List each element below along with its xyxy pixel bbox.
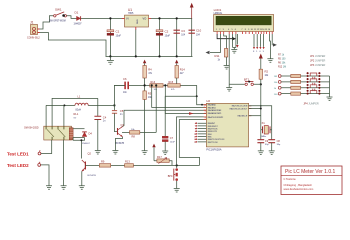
svg-text:C6: C6 bbox=[123, 77, 127, 81]
net arrow on RA5 wire bbox=[189, 112, 194, 115]
wire relay pin down to ground bbox=[63, 140, 65, 186]
wire relay coil to D4 top bbox=[73, 128, 84, 130]
capacitor C9 bbox=[257, 140, 269, 146]
junction node C1 bottom bbox=[109, 55, 111, 57]
wire J1 pin1 up to rail bbox=[38, 16, 50, 29]
svg-text:D4: D4 bbox=[89, 132, 93, 136]
wire Q2 base to R9 bbox=[85, 164, 99, 166]
wire C1 column bbox=[109, 18, 111, 56]
wire C6 tap down to tank node bbox=[114, 85, 125, 105]
wire U2 MCLR to R2 column bbox=[249, 115, 261, 117]
power +5V arrow above rail bbox=[190, 3, 194, 19]
svg-text:BT1: BT1 bbox=[244, 77, 250, 81]
svg-text:C7: C7 bbox=[170, 136, 174, 140]
wire U2 OSC1 to crystal right rail bbox=[249, 106, 272, 130]
diode D1 bbox=[74, 11, 83, 26]
svg-text:OMI-SH-205D: OMI-SH-205D bbox=[24, 128, 39, 130]
junction node RA2 wire bbox=[201, 104, 203, 106]
resistor R2 bbox=[259, 69, 269, 79]
wire LED2 to ground bbox=[41, 165, 49, 186]
resistor R15 comparator bbox=[168, 81, 180, 91]
U2 right pin stubs red bbox=[249, 106, 252, 116]
junction node tank bbox=[113, 104, 115, 106]
wire C8 to ground bbox=[271, 143, 273, 151]
ground symbol jumper bus bbox=[327, 97, 333, 101]
junction node R4 R3 bbox=[144, 84, 146, 86]
svg-text:1N4007: 1N4007 bbox=[82, 143, 90, 145]
svg-text:C4: C4 bbox=[103, 115, 107, 119]
svg-text:RA1/AN1: RA1/AN1 bbox=[208, 106, 216, 109]
ground symbol LCD RS/button bbox=[226, 84, 232, 91]
jumper row 1 terminal bbox=[274, 75, 281, 79]
wire row4 bbox=[281, 93, 329, 95]
power +5V arrow above R4 bbox=[143, 60, 146, 66]
wire comparator node horizontal bbox=[114, 84, 196, 86]
junction node C3 top bbox=[176, 17, 178, 19]
jumper block pins column B bbox=[318, 72, 320, 95]
wire LCD RS down to button node bbox=[228, 34, 230, 84]
wire LCD backlight pin to ground bbox=[269, 34, 272, 59]
svg-text:4MHz: 4MHz bbox=[261, 136, 267, 138]
power +5V arrow for R17 bbox=[152, 144, 155, 161]
svg-text:R5 100: R5 100 bbox=[278, 58, 286, 60]
svg-text:82uH: 82uH bbox=[76, 109, 82, 111]
junction node C7 tap bbox=[196, 95, 198, 97]
title block frame bbox=[281, 166, 342, 195]
wire bypass corner down to C4 bbox=[97, 98, 99, 116]
svg-text:BC547B: BC547B bbox=[88, 175, 97, 177]
svg-text:R9: R9 bbox=[101, 160, 105, 164]
junction node button R2 bbox=[260, 83, 262, 85]
ground symbol C8 bbox=[269, 151, 275, 155]
wire relay coil to D4 bottom bbox=[73, 137, 84, 139]
svg-text:VO: VO bbox=[143, 17, 147, 21]
wire C3 column bbox=[176, 18, 178, 56]
svg-text:VI: VI bbox=[126, 17, 129, 21]
push button calibrate bbox=[168, 165, 178, 188]
wire LCD VDD down left bbox=[210, 34, 220, 53]
svg-text:GND: GND bbox=[137, 19, 139, 24]
wire crystal left down to C9 bbox=[260, 130, 262, 140]
svg-text:RB5: RB5 bbox=[208, 136, 212, 138]
svg-text:Test LED2: Test LED2 bbox=[7, 163, 29, 168]
svg-text:R12 1M: R12 1M bbox=[278, 67, 286, 69]
svg-text:Q2: Q2 bbox=[88, 152, 92, 156]
net arrows data wires bbox=[253, 47, 265, 49]
pin number labels under data wires bbox=[253, 51, 265, 53]
wire relay pin1 up bbox=[45, 105, 47, 126]
wire tank node down to C5 bbox=[113, 105, 115, 110]
ground symbol under C4 bbox=[95, 151, 101, 155]
wire bottom run bbox=[111, 164, 200, 166]
svg-text:RA5/MCLR: RA5/MCLR bbox=[238, 115, 248, 118]
svg-text:RB2/TX/CK: RB2/TX/CK bbox=[208, 128, 219, 130]
ground symbol under C7 bbox=[162, 151, 168, 155]
wire LCD VSS to net arrow bbox=[217, 34, 232, 39]
capacitor C10 bbox=[189, 29, 202, 37]
wire LCD data D4-D7 bbox=[254, 34, 264, 47]
ground symbol backlight bbox=[267, 59, 273, 63]
resistor R13 bbox=[125, 160, 134, 167]
wire top rail from SW1 to U1 input bbox=[50, 16, 124, 19]
svg-text:R13: R13 bbox=[151, 81, 156, 84]
wire Q2 collector to relay coil node bbox=[73, 138, 84, 159]
preset R17 bbox=[154, 155, 172, 166]
resistor R14 bbox=[175, 66, 185, 79]
wire Q1 collector to PIC RA4 bbox=[123, 110, 207, 126]
wire C2 column bbox=[159, 18, 161, 56]
jumper row 2 terminal bbox=[274, 81, 281, 85]
transistor Q2 bbox=[82, 152, 96, 178]
wire U2 OSC2 to crystal left rail bbox=[249, 108, 261, 110]
resistor R8 bbox=[122, 129, 156, 139]
wire J1 pin2 return to ground rail bbox=[38, 33, 107, 57]
svg-text:RA0/AN0: RA0/AN0 bbox=[208, 104, 216, 107]
switch SW1 bbox=[49, 8, 67, 23]
wire R2 column down to crystal bbox=[260, 79, 262, 130]
wire LCD E pin stub down bbox=[236, 34, 238, 45]
power +5V arrow above R2 bbox=[259, 54, 263, 70]
svg-text:JP2 JUMPER: JP2 JUMPER bbox=[310, 59, 325, 62]
wire C7 node horizontal bbox=[165, 95, 197, 97]
svg-text:Test LED1: Test LED1 bbox=[7, 152, 29, 157]
svg-text:RB7/T1OSI: RB7/T1OSI bbox=[208, 142, 218, 144]
wire C10 column bbox=[191, 18, 193, 56]
junction node bottom button bbox=[176, 164, 178, 166]
svg-text:RB3/CCP1: RB3/CCP1 bbox=[208, 131, 217, 133]
U2 right pin labels bbox=[230, 105, 248, 118]
net arrow E pin bbox=[236, 45, 239, 48]
svg-text:D1: D1 bbox=[75, 11, 79, 15]
terminal Test LED1 bbox=[7, 151, 41, 157]
ground symbol C9 bbox=[258, 151, 264, 155]
svg-text:Pic LC Meter Ver 1.0.1: Pic LC Meter Ver 1.0.1 bbox=[285, 169, 336, 175]
junction node relay pin3 bbox=[63, 104, 65, 106]
wire LCD VEE to R11 bbox=[224, 34, 227, 49]
wire R14 column down to net bbox=[176, 78, 178, 84]
svg-text:1M: 1M bbox=[274, 76, 277, 78]
wire relay pin3 up bbox=[63, 105, 65, 126]
ground symbol LCD RW/E bbox=[231, 48, 237, 54]
resistor R13 comparator bbox=[150, 81, 163, 91]
resistor jumper row1 bbox=[291, 74, 301, 77]
wire ground rail bbox=[106, 55, 192, 57]
resistor R11 bbox=[215, 49, 228, 62]
svg-text:R13: R13 bbox=[125, 160, 130, 164]
wire button row bbox=[229, 83, 261, 85]
svg-text:1N4007: 1N4007 bbox=[74, 23, 83, 25]
svg-text:R15: R15 bbox=[169, 81, 174, 84]
resistor jumper row4 bbox=[291, 92, 301, 95]
transistor Q1 bbox=[116, 123, 125, 145]
junction node C2 bottom bbox=[158, 55, 160, 57]
diode D4 flyback bbox=[82, 132, 92, 145]
junction node osc tap bbox=[260, 105, 262, 107]
svg-text:C1: C1 bbox=[116, 30, 120, 34]
ground symbol under Q1 bbox=[112, 151, 118, 155]
wire R11 to ground bbox=[226, 57, 228, 66]
svg-text:RA4/T0CKI/CMP2: RA4/T0CKI/CMP2 bbox=[208, 116, 223, 119]
wire R8 vertical to comparator node bbox=[155, 85, 157, 132]
svg-text:J1: J1 bbox=[30, 21, 34, 25]
inductor L1 bbox=[75, 96, 88, 112]
wire row1 bbox=[281, 75, 329, 77]
junction node RA3 tap bbox=[151, 84, 153, 86]
wire relay pin2 bypass to C4 bbox=[52, 98, 98, 126]
svg-text:JP1 JUMPER: JP1 JUMPER bbox=[310, 55, 325, 58]
svg-text:R8: R8 bbox=[132, 135, 136, 139]
U2 left pin numbers bbox=[194, 106, 206, 144]
svg-text:R14: R14 bbox=[180, 68, 185, 72]
wire R3 right to PIC RA5 bbox=[165, 85, 206, 113]
svg-text:RA7/OSC1/CLKIN: RA7/OSC1/CLKIN bbox=[232, 105, 248, 108]
capacitor C6 bbox=[123, 77, 129, 94]
junction node OSC2 left rail bbox=[260, 108, 262, 110]
wire jumper right bus bbox=[329, 76, 331, 97]
junction node R8 tap bbox=[155, 84, 157, 86]
svg-text:3: 3 bbox=[205, 117, 206, 119]
resistor R5 divider bbox=[143, 85, 152, 150]
svg-text:R4: R4 bbox=[148, 68, 152, 72]
svg-text:C5: C5 bbox=[120, 109, 124, 113]
junction node U1 gnd bbox=[135, 55, 137, 57]
LCD pin stubs bbox=[217, 32, 272, 35]
svg-text:BPC: BPC bbox=[168, 175, 173, 178]
svg-text:R6 10k: R6 10k bbox=[278, 63, 286, 65]
wire R15 net down to PIC RA2 bbox=[197, 85, 207, 104]
ground symbol under R11 bbox=[224, 66, 230, 70]
svg-text:7805: 7805 bbox=[128, 12, 134, 15]
wire LED1 to relay contact bbox=[41, 140, 52, 154]
jumper row 3 terminal bbox=[274, 86, 281, 90]
junction node RA5 tap bbox=[164, 84, 166, 86]
svg-text:C3: C3 bbox=[181, 29, 185, 33]
svg-text:RB6/T1OSO/T1CKI: RB6/T1OSO/T1CKI bbox=[208, 139, 225, 141]
resistor R4 bbox=[143, 66, 153, 86]
svg-text:SW-SPST-MOM: SW-SPST-MOM bbox=[49, 21, 66, 23]
wire Q2 emitter to ground bbox=[81, 171, 83, 186]
svg-text:10uF: 10uF bbox=[165, 34, 171, 37]
U2 left pin labels bbox=[208, 104, 225, 144]
ground symbol under rail at C1 bbox=[107, 56, 114, 64]
jumper row 4 terminal bbox=[274, 92, 281, 96]
jumper block pins column A bbox=[307, 72, 309, 95]
wire U1 ground pin down bbox=[135, 30, 137, 57]
wire tank run with L1 bbox=[46, 104, 114, 106]
voltage regulator U1 7805 bbox=[122, 8, 151, 29]
wire comparator node to PIC RA3 bbox=[152, 85, 207, 107]
wire U1 output rail bbox=[151, 17, 192, 19]
svg-text:LM016L: LM016L bbox=[214, 12, 223, 15]
wire C7 column bbox=[164, 96, 166, 136]
wire inner loop bottom run to PIC bbox=[179, 120, 206, 166]
capacitor C4 bbox=[94, 115, 106, 122]
wire outer loop button node to PIC bbox=[177, 117, 207, 164]
LCD1 display module bbox=[214, 8, 274, 32]
terminal Test LED2 bbox=[7, 162, 41, 168]
connector J1 bbox=[27, 21, 40, 40]
ground symbol Q2 emitter bbox=[79, 186, 85, 190]
svg-text:RA3/AN3/CMP1: RA3/AN3/CMP1 bbox=[208, 112, 222, 115]
capacitor C3 bbox=[174, 29, 186, 37]
net arrow right data bus bbox=[273, 43, 277, 46]
svg-text:RB0/INT: RB0/INT bbox=[208, 123, 216, 125]
resistor R9 bbox=[99, 160, 110, 167]
U2 RB pin stubs with net arrows bbox=[198, 123, 207, 142]
junction node C2 top bbox=[158, 17, 160, 19]
svg-text:Q1: Q1 bbox=[121, 123, 125, 127]
relay RL1 bbox=[24, 112, 79, 140]
wire C9 to ground bbox=[260, 143, 262, 151]
crystal X1 bbox=[261, 121, 272, 138]
svg-text:JP3 JUMPER: JP3 JUMPER bbox=[310, 64, 325, 67]
svg-text:BC547B: BC547B bbox=[116, 143, 125, 145]
capacitor C1 bbox=[107, 30, 121, 38]
svg-text:X1: X1 bbox=[262, 121, 266, 125]
ground symbol under R5 bbox=[142, 151, 148, 155]
ground symbol relay pin bbox=[61, 186, 67, 190]
wire C7 to ground bbox=[164, 142, 166, 151]
ground symbol button bbox=[174, 189, 180, 193]
jumper caps brackets bbox=[310, 73, 317, 94]
wire crystal right down to C8 bbox=[271, 130, 273, 140]
svg-text:R5: R5 bbox=[148, 92, 152, 96]
svg-text:SW1: SW1 bbox=[55, 8, 62, 12]
svg-text:C TestLine: C TestLine bbox=[284, 177, 297, 181]
svg-text:RA2/AN2/VREF: RA2/AN2/VREF bbox=[208, 109, 222, 112]
svg-text:C2: C2 bbox=[165, 30, 169, 34]
svg-text:C10: C10 bbox=[196, 29, 202, 33]
wire last pin to net arrow bbox=[271, 34, 273, 45]
wire row2 bbox=[281, 81, 329, 83]
svg-text:Chittagong , Bangladesh: Chittagong , Bangladesh bbox=[284, 183, 313, 187]
wire Q1 emitter to ground bbox=[115, 137, 122, 151]
power +5V arrow above R14 bbox=[175, 60, 178, 66]
net arrows RB pins bbox=[195, 122, 197, 143]
svg-text:www.deshelectronics.com: www.deshelectronics.com bbox=[284, 187, 314, 191]
resistor jumper row3 bbox=[291, 86, 301, 89]
capacitor C5 bbox=[112, 109, 124, 116]
svg-text:CONN-SIL2: CONN-SIL2 bbox=[27, 36, 40, 39]
junction node C1 top bbox=[109, 17, 111, 19]
U2 left pin stubs red bbox=[204, 105, 207, 120]
resistor jumper row2 bbox=[291, 80, 301, 83]
ground symbol LED2 bbox=[46, 186, 52, 190]
wire C4 down to ground bbox=[97, 120, 99, 151]
push button BT1 bbox=[244, 77, 253, 85]
svg-text:RA6/OSC2/CLKOUT: RA6/OSC2/CLKOUT bbox=[230, 107, 248, 110]
junction node C3 rail bbox=[176, 55, 178, 57]
svg-text:R2: R2 bbox=[265, 70, 269, 74]
wire C5 to Q1 base bbox=[114, 113, 117, 131]
net arrow right on VSS wire bbox=[232, 37, 236, 41]
svg-text:10uF: 10uF bbox=[170, 141, 176, 143]
svg-text:JP4 JUMPER: JP4 JUMPER bbox=[303, 103, 318, 106]
microcontroller U2 PIC16F628A bbox=[206, 99, 248, 152]
wire row3 bbox=[281, 87, 329, 89]
svg-text:10uF: 10uF bbox=[116, 34, 122, 37]
wire LCD RW and E to ground bbox=[233, 34, 236, 48]
capacitor C8 bbox=[268, 140, 281, 146]
svg-text:RL1: RL1 bbox=[74, 112, 79, 116]
svg-text:PIC16F628A: PIC16F628A bbox=[206, 148, 222, 152]
svg-text:R11: R11 bbox=[215, 54, 220, 58]
LCD pin number text row bbox=[216, 29, 271, 31]
svg-text:U2: U2 bbox=[206, 99, 210, 103]
svg-text:R17: R17 bbox=[157, 155, 162, 159]
svg-text:R7 1k: R7 1k bbox=[278, 54, 285, 56]
capacitor C7 bbox=[162, 136, 175, 143]
capacitor C2 bbox=[156, 30, 170, 38]
net arrow left VDD bbox=[206, 51, 210, 55]
